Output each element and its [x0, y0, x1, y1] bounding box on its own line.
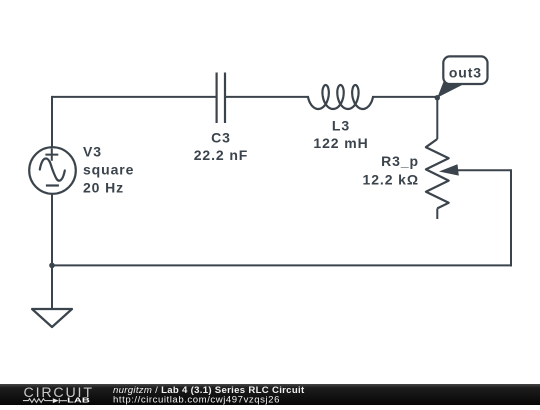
footer logo icon resistor [23, 399, 53, 403]
potentiometer R3_p zigzag body [426, 139, 449, 208]
svg-text:122 mH: 122 mH [313, 135, 368, 151]
voltage source V3 circle [29, 147, 76, 194]
svg-text:http://circuitlab.com/cwj497vz: http://circuitlab.com/cwj497vzqsj26 [113, 395, 280, 405]
ground symbol [32, 309, 72, 327]
footer logo icon diode [53, 398, 59, 403]
wire C3 to L3 [225, 96, 309, 98]
wire top horizontal from V3 to C3 [52, 96, 216, 98]
potentiometer R3_p bottom stub [436, 208, 438, 219]
svg-text:22.2 nF: 22.2 nF [194, 147, 249, 163]
svg-text:12.2 kΩ: 12.2 kΩ [363, 171, 419, 187]
svg-text:out3: out3 [449, 64, 482, 80]
node out3 junction dot [435, 95, 440, 100]
wire bottom horizontal [51, 264, 512, 266]
wire out3 node down to R3_p [436, 98, 438, 139]
svg-text:V3: V3 [83, 144, 102, 160]
junction dot bottom-left [49, 263, 55, 269]
svg-text:C3: C3 [211, 130, 231, 146]
wire top-left vertical into V3 [51, 96, 53, 148]
wire wiper horizontal [456, 169, 512, 171]
potentiometer R3_p wiper arrow [439, 164, 459, 175]
wire right vertical from wiper [510, 170, 512, 266]
inductor L3 coil [308, 85, 373, 109]
V3 plus sign [45, 148, 58, 160]
V3 minus sign [46, 184, 59, 186]
node out3 flag tail [437, 81, 464, 98]
svg-text:L3: L3 [332, 118, 350, 134]
svg-text:LAB: LAB [67, 395, 90, 404]
wire L3 to out3 node [372, 96, 437, 98]
capacitor C3 plates [217, 73, 225, 124]
svg-text:20 Hz: 20 Hz [83, 180, 124, 196]
node out3 flag bubble [443, 56, 487, 84]
wire from V3 bottom to ground [51, 194, 53, 310]
svg-text:square: square [83, 162, 134, 178]
V3 sine wave [40, 158, 65, 180]
svg-text:R3_p: R3_p [381, 153, 419, 169]
